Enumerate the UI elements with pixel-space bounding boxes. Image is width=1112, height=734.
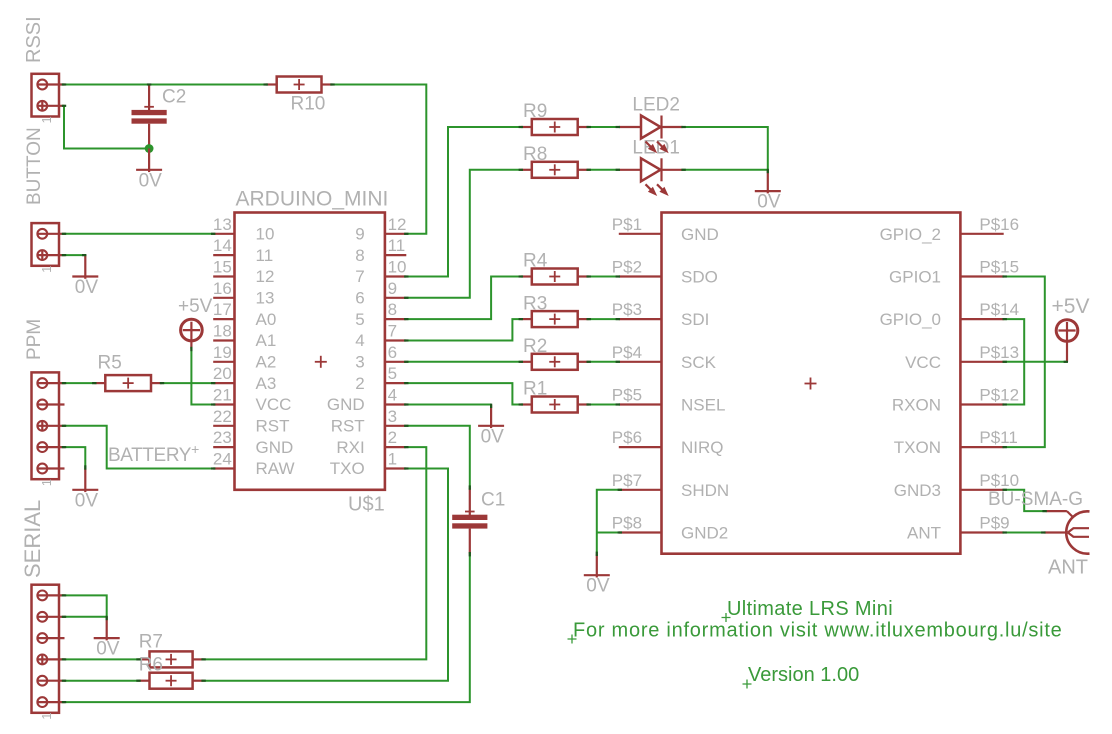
U$1 right pin 12 (9) (355, 215, 406, 244)
junction node C2/ground (145, 144, 154, 153)
svg-text:P$10: P$10 (979, 471, 1019, 490)
svg-text:2: 2 (388, 428, 397, 447)
svg-text:5: 5 (388, 364, 397, 383)
wire net SERIAL pin6 to C1 bottom (64, 553, 470, 702)
svg-text:P$6: P$6 (612, 428, 642, 447)
svg-text:0V: 0V (75, 490, 99, 511)
wire net RSSI pin2 to C2/ground junction (64, 106, 149, 149)
svg-text:NIRQ: NIRQ (681, 438, 724, 457)
U$1 left pin 13 (10) (213, 215, 275, 244)
svg-text:12: 12 (388, 215, 407, 234)
svg-text:14: 14 (213, 236, 232, 255)
svg-text:R7: R7 (139, 631, 163, 652)
svg-text:R1: R1 (523, 379, 547, 400)
svg-text:ANT: ANT (907, 524, 941, 543)
svg-text:BUTTON: BUTTON (24, 127, 45, 205)
wire net P$10 GND3 to antenna shell (1004, 490, 1046, 511)
svg-text:Version 1.00: Version 1.00 (748, 664, 859, 686)
RF module right pin P$16 (GPIO_2) (880, 215, 1020, 244)
wire net +5V to Arduino pin 21 VCC (191, 348, 213, 405)
wire net BUTTON pin1 to Arduino pin 13 (64, 233, 213, 235)
RF module right pin P$13 (VCC) (905, 343, 1019, 372)
resistor R7 (139, 651, 204, 667)
RF module left pin P$7 (SHDN) (612, 471, 729, 500)
text version (743, 664, 860, 689)
ground 0V (PPM) (72, 469, 98, 493)
svg-text:0V: 0V (586, 576, 610, 597)
svg-text:GPIO_2: GPIO_2 (880, 225, 941, 244)
svg-text:LED2: LED2 (632, 95, 680, 116)
wire endpoint junction ticks (62, 83, 1068, 703)
svg-text:RST: RST (331, 417, 365, 436)
wire net BATTERY+ PPM pin3 to Arduino pin 24 RAW (64, 426, 213, 469)
svg-text:BATTERY+: BATTERY+ (108, 441, 199, 466)
IC U$1 origin cross (315, 356, 327, 368)
text info line (568, 620, 1063, 644)
LED LED1 (619, 158, 683, 181)
svg-text:1: 1 (39, 479, 54, 486)
resistor R1 (521, 397, 589, 413)
svg-text:R3: R3 (523, 293, 547, 314)
wire net R10 to Arduino pin 12 (333, 85, 427, 234)
svg-text:SCK: SCK (681, 353, 717, 372)
wire net Arduino pin 8 to R4 (406, 277, 521, 320)
IC RF module body (662, 213, 961, 554)
svg-text:NSEL: NSEL (681, 396, 725, 415)
svg-text:9: 9 (355, 225, 364, 244)
capacitor C1 (452, 488, 487, 554)
ground 0V (LED) (755, 170, 781, 194)
wire net LED1 cathode to ground rail (683, 169, 768, 171)
svg-text:SERIAL: SERIAL (20, 500, 45, 578)
wire net SERIAL pin1/pin2 to ground (64, 595, 107, 616)
svg-text:8: 8 (388, 300, 397, 319)
svg-text:RST: RST (256, 417, 290, 436)
LED LED2 emission arrows (646, 142, 669, 154)
wire net R3 to P$3 SDI (589, 318, 619, 320)
svg-text:SDO: SDO (681, 268, 718, 287)
connector SERIAL pin 1 (37, 591, 65, 601)
svg-text:0V: 0V (96, 639, 120, 660)
wire net R1 to P$5 NSEL (589, 404, 619, 406)
U$1 right pin 10 (7) (355, 258, 406, 287)
svg-text:P$7: P$7 (612, 471, 642, 490)
supply +5V right pin stub (1066, 322, 1068, 362)
svg-text:R9: R9 (523, 101, 547, 122)
svg-text:LED1: LED1 (632, 138, 680, 159)
svg-text:0V: 0V (481, 426, 505, 447)
wire net PPM pin4 to ground (64, 447, 85, 468)
U$1 left pin 17 (A0) (213, 300, 276, 329)
connector SERIAL body (32, 585, 60, 713)
svg-text:8: 8 (355, 246, 364, 265)
wire net R2 to P$4 SCK (589, 361, 619, 363)
svg-text:RXI: RXI (336, 438, 364, 457)
connector BUTTON body (32, 223, 60, 266)
U$1 left pin 21 (VCC) (213, 386, 292, 415)
svg-text:1: 1 (39, 116, 54, 123)
U$1 left pin 14 (11) (213, 236, 273, 265)
wire net Arduino pin 6 to R2 (406, 361, 521, 363)
U$1 right pin 8 (5) (355, 300, 406, 329)
U$1 right pin 9 (6) (355, 279, 406, 308)
connector RSSI pin 2 (37, 100, 65, 111)
svg-text:P$14: P$14 (979, 300, 1019, 319)
svg-text:For more information visit www: For more information visit www.itluxembo… (573, 620, 1063, 642)
svg-text:R6: R6 (139, 655, 163, 676)
svg-text:SHDN: SHDN (681, 481, 729, 500)
svg-text:9: 9 (388, 279, 397, 298)
svg-text:R5: R5 (98, 352, 122, 373)
svg-text:+5V: +5V (1052, 295, 1090, 318)
RF module left pin P$1 (GND) (612, 215, 719, 244)
U$1 right pin 11 (8) (355, 236, 406, 265)
svg-text:12: 12 (256, 267, 275, 286)
wire net Arduino pin 7 to R3 (406, 319, 521, 340)
wire net LED2 cathode to ground rail (683, 127, 768, 170)
svg-text:0V: 0V (757, 192, 781, 213)
svg-text:VCC: VCC (905, 353, 941, 372)
resistor R8 (521, 162, 589, 178)
svg-text:GND: GND (681, 225, 719, 244)
svg-text:11: 11 (256, 246, 274, 265)
connector SERIAL pin 5 (37, 676, 65, 686)
U$1 left pin 24 (RAW) (213, 450, 295, 479)
svg-text:P$12: P$12 (979, 386, 1019, 405)
wire net BUTTON pin2 to ground (64, 254, 85, 256)
svg-text:23: 23 (213, 428, 232, 447)
LED LED1 emission arrows (646, 184, 669, 196)
svg-text:3: 3 (355, 353, 364, 372)
wire net R9 to LED2 anode (589, 126, 619, 128)
connector BUTTON pin 1 (37, 229, 65, 239)
svg-text:6: 6 (355, 289, 364, 308)
svg-text:16: 16 (213, 279, 232, 298)
svg-text:A3: A3 (256, 374, 277, 393)
svg-text:PPM: PPM (24, 319, 45, 360)
connector PPM body (32, 372, 60, 479)
ground 0V (RF GND2) (584, 554, 610, 578)
wire net Arduino pin 9 to R8 (406, 170, 521, 298)
svg-text:P$5: P$5 (612, 386, 642, 405)
IC RF module origin cross (805, 378, 817, 390)
svg-text:VCC: VCC (256, 395, 292, 414)
svg-text:RSSI: RSSI (23, 16, 45, 63)
connector RSSI pin 1 (37, 80, 65, 90)
connector X1 BU-SMA-G center pin (1045, 528, 1090, 537)
svg-text:7: 7 (388, 322, 397, 341)
svg-text:21: 21 (213, 386, 232, 405)
U$1 right pin 5 (2) (355, 364, 406, 393)
svg-text:13: 13 (256, 289, 275, 308)
svg-text:C2: C2 (162, 87, 186, 108)
wire net SERIAL pin4 to R7 (64, 658, 139, 660)
svg-text:P$2: P$2 (612, 258, 642, 277)
LED LED2 (619, 116, 683, 139)
text title Ultimate LRS Mini (722, 598, 894, 622)
svg-text:1: 1 (39, 713, 54, 720)
svg-text:A1: A1 (256, 331, 277, 350)
svg-text:P$3: P$3 (612, 300, 642, 319)
U$1 right pin 1 (TXO) (330, 450, 407, 479)
svg-text:6: 6 (388, 343, 397, 362)
svg-text:P$15: P$15 (979, 258, 1019, 277)
connector X1 BU-SMA-G shell (1046, 511, 1090, 554)
svg-text:R8: R8 (523, 144, 547, 165)
supply +5V left pin stub (190, 322, 192, 349)
svg-text:7: 7 (355, 267, 364, 286)
wire net Arduino pin 5 to R1 (406, 383, 521, 404)
connector BUTTON pin 2 (37, 250, 65, 261)
RF module left pin P$5 (NSEL) (612, 386, 726, 415)
RF module right pin P$12 (RXON) (892, 386, 1019, 415)
svg-text:20: 20 (213, 364, 232, 383)
wire net SERIAL pin5 to R6 (64, 680, 139, 682)
svg-text:GPIO_0: GPIO_0 (880, 310, 941, 329)
ground 0V (SERIAL) (94, 617, 120, 641)
svg-text:BU-SMA-G: BU-SMA-G (988, 489, 1083, 510)
U$1 left pin 15 (12) (213, 258, 275, 287)
svg-text:10: 10 (388, 258, 407, 277)
svg-text:RAW: RAW (256, 459, 295, 478)
svg-text:P$13: P$13 (979, 343, 1019, 362)
U$1 left pin 20 (A3) (213, 364, 276, 393)
U$1 left pin 18 (A1) (213, 322, 276, 351)
U$1 left pin 22 (RST) (213, 407, 290, 436)
svg-text:P$11: P$11 (979, 428, 1017, 447)
svg-text:22: 22 (213, 407, 232, 426)
ground 0V (ARDUINO GND pin) (478, 405, 504, 429)
svg-text:A2: A2 (256, 353, 277, 372)
resistor R4 (521, 269, 589, 285)
wire net Arduino pin 10 to R9 (406, 127, 521, 277)
svg-text:C1: C1 (481, 490, 505, 511)
svg-text:5: 5 (355, 310, 364, 329)
wire net PPM pin1 to R5 (64, 382, 94, 384)
ground 0V (C2) (136, 149, 162, 173)
U$1 left pin 16 (13) (213, 279, 275, 308)
connector SERIAL pin 6 (37, 697, 65, 707)
svg-text:R2: R2 (523, 336, 547, 357)
svg-text:2: 2 (355, 374, 364, 393)
svg-text:P$16: P$16 (979, 215, 1019, 234)
svg-text:GND: GND (256, 438, 294, 457)
U$1 left pin 19 (A2) (213, 343, 276, 372)
RF module left pin P$2 (SDO) (612, 258, 718, 287)
RF module left pin P$6 (NIRQ) (612, 428, 724, 457)
RF module left pin P$4 (SCK) (612, 343, 717, 372)
RF module right pin P$11 (TXON) (894, 428, 1018, 457)
svg-text:P$1: P$1 (612, 215, 642, 234)
svg-text:U$1: U$1 (348, 494, 385, 516)
wire net Arduino pin 3 RST to C1 top (406, 426, 470, 488)
ground 0V (BUTTON) (72, 255, 98, 279)
resistor R6 (139, 673, 204, 689)
connector PPM pin 2 (37, 400, 65, 410)
resistor R2 (521, 354, 589, 370)
svg-text:P$4: P$4 (612, 343, 642, 362)
svg-text:13: 13 (213, 215, 232, 234)
RF module right pin P$10 (GND3) (894, 471, 1019, 500)
resistor R5 (94, 375, 162, 391)
svg-text:TXON: TXON (894, 438, 941, 457)
wire net P$15 GPIO1 to P$11 RXON (1004, 277, 1045, 448)
svg-text:GND: GND (327, 395, 365, 414)
connector SERIAL pin 4 (37, 654, 65, 665)
svg-text:1: 1 (39, 266, 54, 273)
wire net Arduino pin 2 RXI to R7 (204, 447, 427, 659)
svg-text:P$9: P$9 (979, 514, 1009, 533)
connector SERIAL pin 2 (37, 612, 65, 622)
resistor R10 (266, 77, 333, 93)
wire net R8 to LED1 anode (589, 169, 619, 171)
svg-text:GND2: GND2 (681, 524, 728, 543)
connector PPM pin 4 (37, 442, 65, 452)
svg-text:0V: 0V (75, 277, 99, 298)
svg-text:10: 10 (256, 225, 275, 244)
svg-text:4: 4 (388, 386, 397, 405)
svg-text:24: 24 (213, 450, 232, 469)
RF module right pin P$9 (ANT) (907, 514, 1010, 543)
U$1 right pin 6 (3) (355, 343, 406, 372)
connector PPM pin 5 (37, 464, 65, 474)
svg-text:11: 11 (388, 236, 406, 255)
wire net P$14 GPIO_0 to P$12 (1004, 319, 1024, 404)
resistor R3 (521, 311, 589, 327)
IC U$1 ARDUINO_MINI body (235, 213, 385, 490)
wire net R5 to Arduino pin 20 A3 (162, 382, 213, 384)
U$1 right pin 2 (RXI) (336, 428, 406, 457)
wire net RSSI-R10 segment (64, 84, 266, 86)
connector SERIAL pin 3 (37, 633, 65, 643)
supply +5V symbol (right) (1056, 320, 1078, 342)
svg-text:4: 4 (355, 331, 364, 350)
connector RSSI body (32, 74, 60, 117)
svg-text:GPIO1: GPIO1 (889, 268, 941, 287)
svg-text:GND3: GND3 (894, 481, 941, 500)
svg-text:17: 17 (213, 300, 232, 319)
wire net R4 to P$2 SDO (589, 276, 619, 278)
svg-text:18: 18 (213, 322, 232, 341)
RF module right pin P$15 (GPIO1) (889, 258, 1019, 287)
wire net Arduino pin 1 TXO to R6 (204, 469, 448, 681)
svg-text:0V: 0V (139, 170, 163, 191)
wire net Arduino pin 4 GND to ground (406, 404, 491, 406)
U$1 left pin 23 (GND) (213, 428, 293, 457)
svg-text:15: 15 (213, 258, 232, 277)
wire net P$13 VCC to +5V (1004, 361, 1067, 363)
wire net P$9 ANT to antenna pin (1004, 532, 1045, 534)
U$1 right pin 4 (GND) (327, 386, 406, 415)
svg-text:SDI: SDI (681, 310, 709, 329)
resistor R9 (521, 119, 589, 135)
svg-text:1: 1 (388, 450, 397, 469)
connector PPM pin 3 (37, 420, 65, 431)
svg-text:R4: R4 (523, 251, 548, 272)
connector PPM pin 1 (37, 378, 65, 388)
wire net P$7 SHDN / P$8 GND2 to ground (597, 490, 619, 554)
svg-text:3: 3 (388, 407, 397, 426)
svg-text:19: 19 (213, 343, 232, 362)
svg-text:ANT: ANT (1048, 557, 1088, 579)
U$1 right pin 3 (RST) (331, 407, 407, 436)
svg-text:ARDUINO_MINI: ARDUINO_MINI (236, 188, 389, 211)
supply +5V symbol (left) (181, 319, 203, 341)
svg-text:A0: A0 (256, 310, 277, 329)
capacitor C2 (132, 85, 167, 149)
U$1 right pin 7 (4) (355, 322, 406, 351)
svg-text:R10: R10 (291, 94, 326, 115)
RF module left pin P$8 (GND2) (612, 514, 728, 543)
RF module right pin P$14 (GPIO_0) (880, 300, 1020, 329)
svg-text:P$8: P$8 (612, 514, 642, 533)
svg-text:Ultimate LRS Mini: Ultimate LRS Mini (727, 598, 893, 620)
svg-text:RXON: RXON (892, 396, 941, 415)
RF module left pin P$3 (SDI) (612, 300, 710, 329)
svg-text:+5V: +5V (178, 296, 213, 317)
svg-text:TXO: TXO (330, 459, 365, 478)
